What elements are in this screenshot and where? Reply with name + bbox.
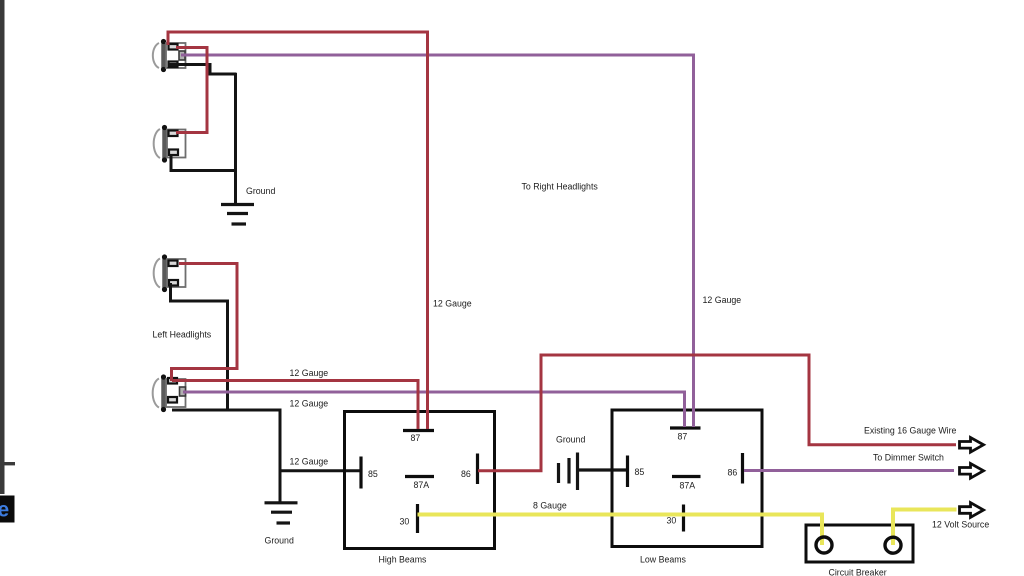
svg-text:85: 85: [368, 469, 378, 479]
svg-text:Existing 16 Gauge Wire: Existing 16 Gauge Wire: [864, 426, 957, 436]
svg-text:12 Gauge: 12 Gauge: [290, 368, 329, 378]
svg-text:Ground: Ground: [556, 435, 585, 445]
svg-text:High Beams: High Beams: [379, 555, 428, 565]
svg-text:e: e: [0, 499, 9, 522]
svg-text:12 Gauge: 12 Gauge: [703, 295, 742, 305]
svg-text:86: 86: [461, 469, 471, 479]
svg-text:To Dimmer Switch: To Dimmer Switch: [873, 453, 944, 463]
svg-text:87: 87: [411, 433, 421, 443]
svg-text:Ground: Ground: [246, 186, 275, 196]
svg-text:85: 85: [635, 467, 645, 477]
svg-text:87A: 87A: [680, 481, 696, 491]
svg-text:12 Volt Source: 12 Volt Source: [932, 520, 989, 530]
svg-text:86: 86: [728, 468, 738, 478]
svg-text:Left Headlights: Left Headlights: [153, 330, 212, 340]
svg-text:Ground: Ground: [265, 536, 294, 546]
svg-text:87: 87: [678, 432, 688, 442]
svg-text:Low Beams: Low Beams: [640, 555, 687, 565]
svg-text:To Right Headlights: To Right Headlights: [522, 182, 599, 192]
svg-text:30: 30: [400, 517, 410, 527]
svg-text:30: 30: [667, 516, 677, 526]
svg-text:12 Gauge: 12 Gauge: [433, 299, 472, 309]
svg-text:87A: 87A: [414, 480, 430, 490]
svg-text:8 Gauge: 8 Gauge: [533, 501, 567, 511]
svg-text:Circuit Breaker: Circuit Breaker: [829, 568, 887, 576]
svg-text:12 Gauge: 12 Gauge: [290, 457, 329, 467]
svg-text:12 Gauge: 12 Gauge: [290, 399, 329, 409]
